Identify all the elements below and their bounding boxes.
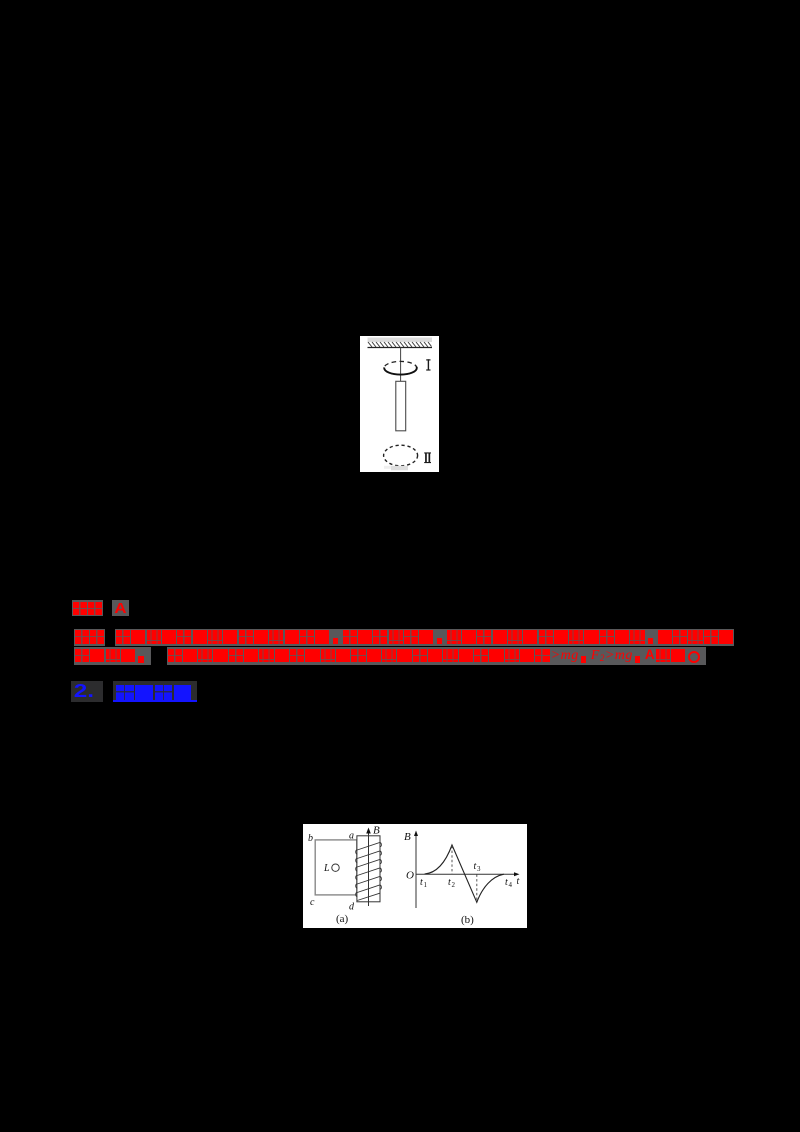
svg-text:a: a [349, 830, 354, 841]
svg-text:b: b [308, 833, 313, 844]
svg-text:3: 3 [477, 865, 481, 873]
svg-text:(b): (b) [461, 914, 474, 926]
svg-text:B: B [373, 824, 380, 836]
svg-text:t: t [517, 876, 520, 887]
svg-text:1: 1 [424, 881, 428, 889]
svg-text:4: 4 [509, 881, 513, 889]
svg-text:B: B [404, 831, 411, 843]
svg-text:c: c [310, 897, 315, 908]
svg-text:L: L [323, 863, 330, 874]
svg-text:(a): (a) [336, 913, 349, 925]
svg-text:O: O [406, 869, 414, 881]
svg-text:d: d [349, 901, 355, 912]
svg-text:2: 2 [452, 881, 456, 889]
